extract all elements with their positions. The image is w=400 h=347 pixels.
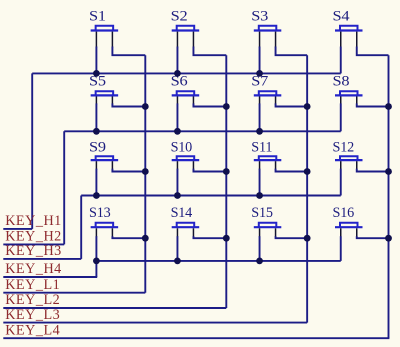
svg-text:S12: S12 <box>333 139 355 155</box>
wire S15 left pin to row H4 <box>259 236 261 261</box>
junction row H4 col 2 <box>174 258 181 265</box>
junction col L4 row 4 <box>385 235 392 242</box>
junction row H4 col 3 <box>256 258 263 265</box>
wire column bus L1 <box>144 55 146 293</box>
wire KEY_H4 stub <box>3 276 97 278</box>
wire S6 left pin to row H2 <box>176 103 178 131</box>
wire S9 left pin to row H3 <box>95 169 97 196</box>
wire S2 right pin to column L2 <box>193 47 226 56</box>
wire S1 right pin to column L1 <box>112 47 145 56</box>
wire row bus H3 <box>81 195 341 197</box>
wire S10 right pin to column L2 <box>193 169 226 172</box>
svg-text:KEY_L1: KEY_L1 <box>5 277 60 293</box>
wire S11 right pin to column L3 <box>276 169 308 172</box>
switch S10 <box>171 139 200 169</box>
wire KEY_L2 stub <box>3 307 226 309</box>
wire S15 right pin to column L3 <box>276 236 308 238</box>
wire KEY_H1 stub <box>3 228 32 230</box>
wire S8 left pin to row H2 <box>340 103 342 131</box>
junction col L2 row 2 <box>223 103 230 110</box>
wire S13 right pin to column L1 <box>112 236 145 238</box>
junction row H4 col 1 <box>93 258 100 265</box>
junction col L3 row 2 <box>304 103 311 110</box>
wire KEY_L3 stub <box>3 322 307 324</box>
wire H2 drop to label <box>63 131 65 244</box>
wire S8 right pin to column L4 <box>357 103 389 106</box>
wire S2 left pin to row H1 <box>176 47 178 74</box>
junction col L3 row 3 <box>304 168 311 175</box>
svg-text:S11: S11 <box>251 139 272 155</box>
wire S7 left pin to row H2 <box>259 103 261 131</box>
switch S11 <box>251 139 281 169</box>
svg-text:S16: S16 <box>333 205 355 221</box>
wire column bus L2 <box>225 55 227 308</box>
switch S13 <box>89 205 118 237</box>
svg-text:S4: S4 <box>333 9 350 25</box>
svg-text:S15: S15 <box>251 205 273 221</box>
wire S16 right pin to column L4 <box>357 236 389 238</box>
wire row bus H1 <box>32 72 341 74</box>
wire H3 drop to label <box>80 196 82 259</box>
junction col L1 row 4 <box>142 235 149 242</box>
wire KEY_H3 stub <box>3 258 81 260</box>
wire S16 left pin to row H4 <box>340 236 342 261</box>
wire S5 left pin to row H2 <box>95 103 97 131</box>
switch S9 <box>89 139 118 169</box>
switch S2 <box>171 9 200 48</box>
junction col L3 row 4 <box>304 235 311 242</box>
wire row bus H2 <box>64 130 341 132</box>
svg-text:S14: S14 <box>171 205 193 221</box>
wire S12 left pin to row H3 <box>340 169 342 196</box>
svg-text:KEY_L3: KEY_L3 <box>5 307 60 323</box>
wire row bus H4 <box>96 260 340 262</box>
junction col L2 row 4 <box>223 235 230 242</box>
svg-text:S9: S9 <box>89 139 106 155</box>
wire S4 right pin to column L4 <box>357 47 389 56</box>
wire S6 right pin to column L2 <box>193 103 226 106</box>
junction col L2 row 3 <box>223 168 230 175</box>
junction row H1 col 3 <box>256 70 263 77</box>
wire S4 left pin to row H1 <box>340 47 342 74</box>
svg-text:S13: S13 <box>89 205 111 221</box>
wire S1 left pin to row H1 <box>95 47 97 74</box>
junction col L1 row 3 <box>142 168 149 175</box>
wire S3 left pin to row H1 <box>259 47 261 74</box>
switch S16 <box>333 205 363 237</box>
wire S5 right pin to column L1 <box>112 103 145 106</box>
wire S3 right pin to column L3 <box>276 47 308 56</box>
wire S12 right pin to column L4 <box>357 169 389 172</box>
switch S7 <box>251 74 281 105</box>
wire S11 left pin to row H3 <box>259 169 261 196</box>
switch S15 <box>251 205 281 237</box>
svg-text:S3: S3 <box>251 9 268 25</box>
switch S1 <box>89 9 118 48</box>
junction row H3 col 1 <box>93 192 100 199</box>
wire KEY_L1 stub <box>3 292 145 294</box>
junction row H1 col 2 <box>174 70 181 77</box>
junction row H2 col 3 <box>256 128 263 135</box>
svg-text:S8: S8 <box>333 74 350 90</box>
svg-text:KEY_H4: KEY_H4 <box>5 261 62 277</box>
wire KEY_L4 stub <box>3 337 389 339</box>
wire H1 drop to label <box>31 73 33 229</box>
svg-text:KEY_H1: KEY_H1 <box>5 213 62 229</box>
svg-text:KEY_L2: KEY_L2 <box>5 292 60 308</box>
wire column bus L3 <box>306 55 308 322</box>
wire S13 left pin to row H4 <box>95 236 97 261</box>
junction col L4 row 2 <box>385 103 392 110</box>
wire S10 left pin to row H3 <box>176 169 178 196</box>
junction row H2 col 1 <box>93 128 100 135</box>
junction row H3 col 3 <box>256 192 263 199</box>
junction row H2 col 2 <box>174 128 181 135</box>
svg-text:S1: S1 <box>89 9 106 25</box>
switch S5 <box>89 74 118 105</box>
wire S9 right pin to column L1 <box>112 169 145 172</box>
svg-text:KEY_L4: KEY_L4 <box>5 322 60 338</box>
switch S3 <box>251 9 281 48</box>
switch S8 <box>333 74 363 105</box>
wire S14 left pin to row H4 <box>176 236 178 261</box>
wire KEY_H2 stub <box>3 243 64 245</box>
switch S12 <box>333 139 363 169</box>
switch S6 <box>171 74 200 105</box>
wire column bus L4 <box>388 55 390 338</box>
switch S14 <box>171 205 200 237</box>
wire S14 right pin to column L2 <box>193 236 226 238</box>
svg-text:KEY_H3: KEY_H3 <box>5 243 62 259</box>
svg-text:S10: S10 <box>171 139 193 155</box>
wire S7 right pin to column L3 <box>276 103 308 106</box>
switch S4 <box>333 9 363 48</box>
junction col L4 row 3 <box>385 168 392 175</box>
wire H4 drop to label <box>95 261 97 277</box>
svg-text:S2: S2 <box>171 9 188 25</box>
junction col L1 row 2 <box>142 103 149 110</box>
junction row H3 col 2 <box>174 192 181 199</box>
junction row H1 col 1 <box>93 70 100 77</box>
